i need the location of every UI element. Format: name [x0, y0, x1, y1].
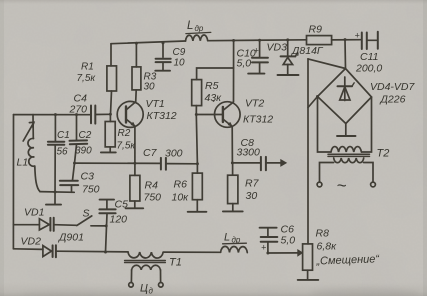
svg-text:VD2: VD2 — [21, 236, 42, 248]
svg-text:T1: T1 — [169, 257, 182, 269]
svg-text:Д901: Д901 — [58, 232, 84, 244]
node: C2/C7 junction — [73, 162, 76, 165]
svg-text:VD4-VD7: VD4-VD7 — [370, 81, 416, 93]
svg-text:120: 120 — [110, 214, 128, 226]
svg-text:R6: R6 — [174, 179, 188, 191]
resistor R9 — [307, 36, 332, 45]
svg-text:+: + — [355, 31, 360, 41]
svg-text:10: 10 — [174, 58, 186, 69]
wire: rail segment R9 to C11 junction — [332, 39, 361, 41]
transistor VT1 КТ312 — [117, 101, 143, 127]
svg-text:д: д — [149, 287, 154, 296]
svg-text:43к: 43к — [205, 92, 223, 104]
svg-text:5,0: 5,0 — [237, 58, 252, 70]
svg-text:R2: R2 — [118, 128, 131, 139]
wire: top supply rail left segment — [111, 41, 186, 44]
capacitor C9 — [162, 43, 164, 57]
svg-text:C3: C3 — [81, 171, 95, 183]
svg-text:„Смещение“: „Смещение“ — [315, 253, 380, 267]
transistor VT2 КТ312 — [215, 102, 241, 128]
transformer T2 — [318, 97, 332, 153]
svg-text:L1: L1 — [17, 157, 29, 169]
svg-text:~: ~ — [337, 176, 347, 195]
svg-text:+: + — [254, 46, 259, 56]
svg-text:R1: R1 — [81, 62, 94, 73]
svg-text:Д814Г: Д814Г — [291, 45, 324, 57]
capacitor C3 — [73, 163, 75, 180]
svg-text:R8: R8 — [316, 228, 330, 240]
svg-text:C2: C2 — [79, 130, 92, 141]
ground bar under bridge — [345, 124, 347, 136]
svg-text:R9: R9 — [309, 24, 323, 36]
svg-text:VD3: VD3 — [267, 42, 288, 54]
zener diode VD3 Д814Г — [286, 38, 289, 41]
wire: VT2 base link — [196, 114, 223, 116]
svg-text:750: 750 — [144, 192, 162, 204]
svg-text:C5: C5 — [115, 199, 129, 211]
wire: long bias drop to R8 — [307, 59, 309, 244]
svg-text:5,0: 5,0 — [281, 235, 296, 247]
wire: bias line from bridge top — [308, 59, 346, 69]
resistor R2 — [109, 114, 111, 121]
svg-text:S: S — [83, 208, 90, 220]
resistor R3 — [135, 43, 137, 67]
svg-text:T2: T2 — [377, 148, 390, 160]
node: C1 top — [54, 113, 57, 116]
wire: VT2 collector drop from rail — [233, 41, 235, 102]
wire: left vertical bus — [12, 115, 14, 249]
diode bridge VD4-VD7 Д226 — [318, 69, 372, 124]
capacitor C8 with output arrow — [232, 162, 260, 164]
capacitor C7 — [160, 158, 162, 170]
svg-text:R5: R5 — [205, 80, 219, 92]
capacitor C2 — [76, 115, 78, 141]
ink speck — [213, 100, 215, 102]
svg-text:L: L — [187, 20, 193, 32]
wire: top supply rail middle segment — [208, 39, 307, 42]
svg-text:C11: C11 — [360, 51, 378, 63]
capacitor C5 — [100, 199, 114, 201]
svg-text:др: др — [195, 24, 204, 33]
wire: bottom rail — [57, 250, 129, 253]
capacitor C1 — [54, 115, 56, 142]
varicap VD2 Д901 — [13, 248, 43, 251]
node: emitter/R4 junction — [133, 162, 136, 165]
inductor Lдр (top choke) — [186, 35, 208, 41]
svg-text:L: L — [224, 232, 230, 244]
svg-text:3300: 3300 — [237, 147, 261, 159]
svg-text:750: 750 — [82, 184, 100, 196]
svg-text:30: 30 — [144, 82, 156, 93]
capacitor C4 — [90, 106, 92, 124]
svg-text:30: 30 — [246, 190, 258, 202]
wire: rail to bridge top — [344, 40, 347, 69]
wire: tank circuit top line — [14, 114, 91, 116]
svg-text:КТ312: КТ312 — [147, 110, 177, 122]
svg-text:R4: R4 — [145, 180, 159, 192]
varicap VD1 Д901 — [14, 224, 40, 226]
svg-text:7,5к: 7,5к — [117, 141, 137, 152]
resistor R6 — [196, 162, 199, 165]
svg-text:6,8к: 6,8к — [317, 241, 338, 253]
svg-text:390: 390 — [75, 146, 92, 157]
resistor R1 — [110, 44, 112, 66]
label Lдр top — [187, 20, 204, 33]
inductor L1 (variable, with arrow) — [32, 115, 34, 139]
node: VT2 emitter junction — [231, 161, 234, 164]
svg-text:7,5к: 7,5к — [77, 73, 97, 84]
wire: bridge left vertex tap — [308, 97, 318, 108]
svg-text:VD1: VD1 — [24, 207, 44, 219]
transformer T1 — [128, 252, 163, 258]
svg-text:C1: C1 — [57, 130, 70, 141]
svg-text:VT2: VT2 — [245, 98, 264, 110]
svg-text:C7: C7 — [143, 147, 158, 159]
resistor R7 — [232, 163, 234, 175]
wire: C7 line from tank to VT1 emitter — [75, 162, 161, 164]
svg-text:+: + — [261, 243, 266, 253]
svg-text:270: 270 — [69, 104, 88, 116]
svg-text:C9: C9 — [173, 47, 186, 58]
svg-text:56: 56 — [57, 147, 69, 158]
capacitor C11 — [344, 38, 347, 41]
svg-text:Ц: Ц — [140, 283, 148, 295]
resistor R5 — [197, 68, 234, 80]
capacitor C6 — [260, 227, 277, 229]
node: C2 top — [75, 113, 78, 116]
node: tank bottom crossing — [54, 191, 57, 194]
wire: tank bottom link — [40, 191, 74, 194]
inductor Lдр (bottom choke) — [221, 246, 248, 252]
capacitor C10 — [258, 39, 261, 42]
potentiometer R8 — [303, 244, 313, 270]
svg-text:Д226: Д226 — [380, 94, 406, 106]
svg-text:300: 300 — [165, 148, 183, 160]
svg-text:R7: R7 — [245, 178, 260, 190]
node: VT1 base junction — [109, 113, 112, 116]
switch S — [77, 216, 92, 226]
svg-text:КТ312: КТ312 — [243, 114, 273, 126]
svg-text:VT1: VT1 — [146, 98, 165, 110]
resistor R4 — [134, 163, 136, 175]
svg-text:200,0: 200,0 — [355, 63, 382, 75]
svg-text:10к: 10к — [172, 192, 190, 204]
